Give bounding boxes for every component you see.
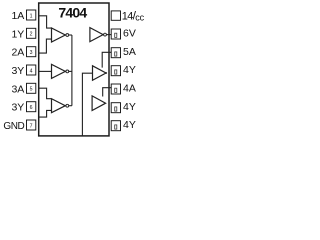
svg-text:4A: 4A [123, 82, 136, 94]
wire U1C output to bus [69, 105, 72, 107]
pin 9 box [111, 103, 120, 113]
wire from left edge up to U1C lower input [39, 110, 52, 117]
svg-text:3: 3 [30, 50, 33, 56]
inverter U1E [93, 66, 108, 81]
inverter U1C [52, 99, 69, 113]
wire U1F output up to pin10 [103, 88, 112, 97]
pin 11 box [111, 66, 120, 76]
svg-text:1: 1 [30, 13, 33, 19]
svg-text:4Y: 4Y [123, 64, 136, 76]
pin 6 box [27, 102, 36, 112]
svg-text:14/cc: 14/cc [122, 9, 145, 23]
svg-text:1Y: 1Y [11, 28, 24, 40]
pin 14 box (Vcc) [111, 11, 120, 20]
svg-text:2A: 2A [11, 47, 24, 59]
wire U1B input from left edge [39, 70, 52, 72]
pin 8 box [111, 121, 120, 131]
inverter U1A [52, 28, 69, 42]
wire pin3 up to U1A lower input [39, 39, 52, 53]
pin 1 box [27, 10, 36, 20]
inverter U1F [92, 96, 106, 111]
svg-text:6: 6 [30, 105, 33, 111]
svg-text:4Y: 4Y [123, 101, 136, 113]
wire U1D output to pin13 [107, 34, 112, 36]
pin 2 box [27, 28, 36, 38]
pin 13 box [111, 29, 120, 39]
pin 12 box [111, 48, 120, 58]
pin 7 box [27, 120, 36, 130]
inverter U1D [90, 28, 107, 42]
svg-text:5A: 5A [123, 46, 136, 58]
svg-text:6V: 6V [123, 27, 136, 39]
pin 10 box [111, 84, 120, 94]
pin 4 box [27, 65, 36, 75]
wire U1A output to bus [69, 34, 72, 36]
svg-text:4Y: 4Y [123, 119, 136, 131]
IC body U1 (7404) [39, 3, 109, 136]
svg-text:5: 5 [30, 87, 33, 93]
wire U1B output to bus [69, 70, 72, 72]
pin 3 box [27, 47, 36, 57]
svg-text:GND: GND [3, 121, 24, 132]
wire pin5 to U1C input [39, 88, 52, 99]
svg-text:7404: 7404 [58, 5, 87, 21]
svg-text:3Y: 3Y [11, 102, 24, 114]
svg-text:1A: 1A [11, 10, 24, 22]
wire right bus to U1E input [82, 73, 92, 136]
wire U1E output up to pin12 [102, 52, 111, 67]
wire pin1 to U1A input [39, 16, 52, 28]
left output bus vertical [71, 35, 73, 106]
svg-text:3Y: 3Y [11, 65, 24, 77]
svg-text:4: 4 [30, 68, 33, 74]
svg-text:7: 7 [30, 123, 33, 129]
svg-text:2: 2 [30, 32, 33, 38]
svg-text:3A: 3A [11, 83, 24, 95]
pin 5 box [27, 83, 36, 93]
inverter U1B [52, 64, 69, 78]
